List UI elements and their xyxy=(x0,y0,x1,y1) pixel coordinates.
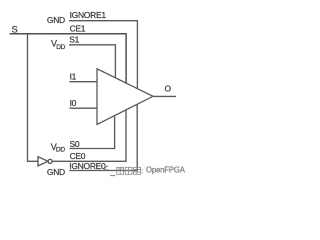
svg-text:DD: DD xyxy=(56,44,65,51)
svg-text:I1: I1 xyxy=(70,72,77,82)
svg-text:S: S xyxy=(12,25,18,36)
svg-text:IGNORE0: IGNORE0 xyxy=(69,161,106,171)
svg-text:IGNORE1: IGNORE1 xyxy=(70,10,107,20)
svg-text:S1: S1 xyxy=(69,35,79,45)
svg-text:O: O xyxy=(165,83,172,93)
svg-text:OpenFPGA: OpenFPGA xyxy=(146,166,185,175)
svg-text:CE0: CE0 xyxy=(70,151,86,161)
svg-text:CE1: CE1 xyxy=(70,24,86,34)
svg-text:GND: GND xyxy=(47,15,65,25)
svg-text:S0: S0 xyxy=(70,139,80,149)
svg-text:GND: GND xyxy=(47,167,65,177)
svg-text:I0: I0 xyxy=(70,98,77,108)
svg-text:DD: DD xyxy=(56,147,65,154)
